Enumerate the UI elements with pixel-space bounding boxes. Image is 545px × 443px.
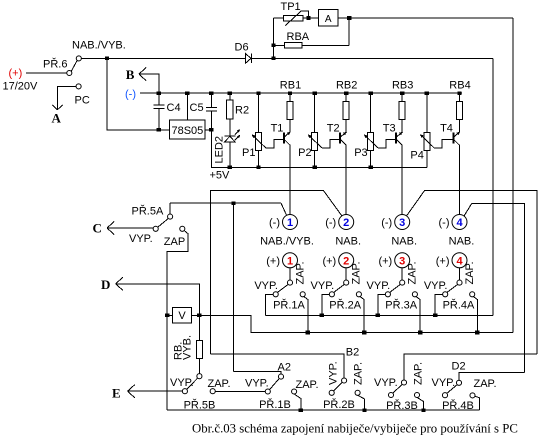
transistor T2 — [339, 133, 341, 144]
svg-text:4: 4 — [456, 255, 463, 267]
svg-text:4: 4 — [456, 217, 463, 229]
switch PR.1A — [289, 268, 291, 280]
switch PR.2A — [345, 268, 347, 280]
wire PR.5A common to node1 bus — [169, 203, 171, 214]
svg-text:NAB./VYB.: NAB./VYB. — [260, 236, 314, 248]
bus node 1 — [170, 202, 281, 204]
svg-text:PŘ.2A: PŘ.2A — [329, 298, 361, 311]
node terminal plus 3 — [395, 253, 410, 268]
transistor T3 — [395, 133, 397, 144]
svg-text:VYP.: VYP. — [254, 280, 278, 292]
svg-text:VYP.: VYP. — [245, 378, 269, 390]
wire TP1 to ammeter — [303, 17, 319, 19]
svg-text:ZAP.: ZAP. — [407, 261, 419, 284]
bus node 4 — [464, 204, 525, 373]
svg-text:ZAP.: ZAP. — [464, 261, 476, 284]
regulator 78S05 — [170, 120, 206, 139]
wire 78S05 top pin — [186, 93, 188, 120]
node terminal minus 4 — [452, 215, 467, 230]
svg-text:VYP.: VYP. — [432, 377, 456, 389]
svg-text:17/20V: 17/20V — [3, 81, 39, 93]
resistor RB4 — [457, 91, 461, 95]
svg-text:B: B — [126, 67, 135, 82]
switch PR.4A — [459, 268, 461, 280]
wire ammeter charge rail — [192, 315, 513, 332]
wire P2 wiper to base — [322, 140, 340, 148]
svg-text:ZAP.: ZAP. — [474, 378, 497, 390]
trimmer TP1 — [284, 15, 304, 20]
svg-text:D6: D6 — [235, 42, 249, 54]
wire main + rail after D6 — [251, 57, 493, 59]
svg-text:TP1: TP1 — [281, 1, 301, 13]
svg-text:(-): (-) — [269, 217, 280, 229]
svg-text:PŘ.5B: PŘ.5B — [184, 398, 216, 411]
svg-text:(-): (-) — [325, 217, 336, 229]
wire minus rail — [140, 92, 462, 94]
svg-text:D2: D2 — [452, 361, 466, 373]
svg-text:VYP.: VYP. — [311, 280, 335, 292]
svg-text:C4: C4 — [167, 102, 181, 114]
wire P3 wiper to base — [378, 140, 396, 148]
wire P4 wiper to base — [434, 140, 453, 148]
wire T1 collector down — [289, 145, 291, 214]
wire PR.2A VYP to direct rail — [322, 294, 330, 315]
svg-text:(+): (+) — [436, 256, 450, 268]
svg-text:PC: PC — [75, 94, 90, 106]
svg-text:T4: T4 — [440, 123, 453, 135]
bus node 2 — [211, 190, 342, 353]
svg-text:ZAP.: ZAP. — [351, 261, 363, 284]
svg-text:VYP.: VYP. — [327, 361, 339, 385]
svg-text:ZAP.: ZAP. — [296, 379, 319, 391]
wire PR.5B ZAP to PR.1B VYP — [215, 390, 265, 392]
wire main + rail — [81, 57, 245, 59]
svg-text:T1: T1 — [271, 123, 284, 135]
svg-text:ZAP: ZAP — [164, 236, 185, 248]
transistor T1 — [283, 133, 285, 144]
svg-text:3: 3 — [399, 217, 405, 229]
trimmer P3 — [369, 91, 373, 95]
svg-text:PŘ.3A: PŘ.3A — [385, 298, 417, 311]
svg-text:VYP.: VYP. — [170, 377, 194, 389]
svg-text:VYP.: VYP. — [367, 280, 391, 292]
wire C to PR.5A VYP — [107, 227, 153, 229]
svg-text:(-): (-) — [125, 89, 136, 101]
svg-text:A: A — [52, 111, 62, 126]
svg-text:P1: P1 — [242, 147, 255, 159]
resistor RB3 — [400, 91, 404, 95]
svg-text:PŘ.2B: PŘ.2B — [323, 398, 355, 411]
svg-text:(-): (-) — [439, 217, 450, 229]
svg-text:RB2: RB2 — [336, 80, 357, 92]
svg-text:PŘ.1A: PŘ.1A — [273, 298, 305, 311]
svg-text:(+): (+) — [322, 256, 336, 268]
svg-text:V: V — [178, 310, 186, 322]
wire PR.4A ZAP to ammeter rail — [473, 296, 478, 332]
bus main + right — [492, 58, 494, 315]
wire discharge rail bottom — [167, 409, 480, 411]
resistor RB2 — [344, 91, 348, 95]
node terminal plus 1 — [283, 253, 298, 268]
svg-text:P3: P3 — [354, 147, 367, 159]
svg-text:(+): (+) — [378, 256, 392, 268]
svg-text:ZAP.: ZAP. — [294, 261, 306, 284]
wire RBA left lead — [274, 44, 285, 46]
bus node 3 — [407, 191, 537, 354]
capacitor C4 — [158, 93, 160, 105]
transistor T4 — [452, 133, 454, 144]
wire E to PR.5B VYP — [128, 390, 183, 392]
wire TP1 branch top — [274, 17, 284, 19]
svg-text:VYP.: VYP. — [129, 233, 153, 245]
wire PR.3A VYP to direct rail — [378, 294, 386, 315]
ammeter A1 box — [319, 10, 339, 27]
svg-text:1: 1 — [287, 255, 293, 267]
resistor RB1 — [288, 91, 292, 95]
svg-text:T2: T2 — [327, 123, 340, 135]
wire P1 wiper to base — [266, 140, 284, 148]
svg-text:NAB./VYB.: NAB./VYB. — [72, 39, 126, 51]
svg-text:ZAP.: ZAP. — [208, 378, 231, 390]
node terminal plus 4 — [452, 253, 467, 268]
trimmer P4 — [425, 91, 429, 95]
svg-text:P4: P4 — [410, 150, 423, 162]
resistor RB discharge — [198, 315, 200, 340]
wire direct charge rail — [266, 314, 493, 316]
node terminal plus 2 — [339, 253, 354, 268]
svg-text:78S05: 78S05 — [171, 125, 203, 137]
svg-text:C: C — [93, 221, 102, 236]
wire RBA right lead — [302, 44, 349, 46]
trimmer P1 — [256, 91, 260, 95]
svg-text:2: 2 — [343, 255, 349, 267]
wire T2 collector down — [345, 145, 347, 214]
LED2 — [229, 119, 231, 136]
svg-text:PŘ.4A: PŘ.4A — [443, 298, 475, 311]
wire PR.2A ZAP to ammeter rail — [360, 296, 365, 332]
svg-text:RB3: RB3 — [392, 80, 413, 92]
svg-text:D: D — [101, 277, 110, 292]
switch PR.3B — [401, 380, 406, 385]
svg-text:VYP.: VYP. — [374, 377, 398, 389]
wire PR.3A ZAP to ammeter rail — [416, 296, 421, 332]
svg-text:(+): (+) — [266, 256, 280, 268]
svg-text:1: 1 — [287, 217, 293, 229]
wire left vertical to 78S05 — [107, 58, 170, 129]
svg-text:2: 2 — [343, 217, 349, 229]
wire PR.4A VYP to direct rail — [435, 294, 443, 315]
svg-text:P2: P2 — [298, 147, 311, 159]
svg-text:(-): (-) — [381, 217, 392, 229]
node terminal minus 3 — [395, 215, 410, 230]
svg-text:VYB.: VYB. — [182, 335, 194, 360]
svg-text:ZAP.: ZAP. — [353, 362, 365, 385]
wire T2 emitter to RB2 — [345, 120, 347, 132]
node terminal minus 2 — [339, 215, 354, 230]
svg-text:NAB.: NAB. — [391, 236, 417, 248]
svg-text:ZAP.: ZAP. — [412, 362, 424, 385]
bus ammeter right — [512, 18, 514, 333]
svg-text:NAB.: NAB. — [335, 236, 361, 248]
svg-text:E: E — [112, 385, 121, 400]
svg-text:NAB.: NAB. — [449, 236, 475, 248]
wire PR.1A ZAP to ammeter rail — [303, 296, 308, 332]
wire T3 emitter to RB3 — [401, 120, 403, 132]
svg-text:T3: T3 — [383, 123, 396, 135]
trimmer P2 — [312, 91, 316, 95]
wire V left lead — [167, 314, 172, 316]
wire D to voltmeter — [116, 284, 200, 316]
svg-text:VYP.: VYP. — [424, 280, 448, 292]
switch PR.5B — [197, 374, 202, 379]
svg-text:R2: R2 — [235, 105, 249, 117]
wire 78S05 output — [205, 129, 211, 131]
svg-text:(+): (+) — [9, 68, 23, 80]
wire ammeter output — [338, 17, 513, 19]
wire from (+) input — [26, 72, 67, 74]
svg-text:PŘ.5A: PŘ.5A — [132, 205, 164, 218]
wire branch vertical — [273, 18, 275, 58]
voltmeter V — [173, 308, 192, 324]
resistor R2 — [229, 93, 231, 100]
contact PC — [76, 84, 81, 89]
svg-text:RB1: RB1 — [280, 80, 301, 92]
svg-text:RB4: RB4 — [449, 80, 470, 92]
svg-text:+5V: +5V — [210, 170, 231, 182]
svg-text:B2: B2 — [346, 347, 359, 359]
svg-text:Obr.č.03 schéma zapojení nabij: Obr.č.03 schéma zapojení nabiječe/vybije… — [192, 421, 518, 435]
svg-text:PŘ.1B: PŘ.1B — [259, 398, 291, 411]
wire T4 emitter to RB4 — [459, 120, 461, 132]
resistor RBA — [285, 42, 303, 48]
wire T1 emitter to RB1 — [289, 120, 291, 132]
wire PR.1A VYP to direct rail — [266, 294, 274, 315]
wire node B to minus rail — [139, 74, 159, 93]
svg-text:RBA: RBA — [287, 31, 310, 43]
svg-text:LED2: LED2 — [214, 136, 226, 164]
node terminal minus 1 — [283, 215, 298, 230]
wire T3 collector down — [401, 145, 403, 214]
svg-text:C5: C5 — [190, 102, 204, 114]
svg-text:A: A — [325, 14, 332, 25]
wire T4 collector down — [459, 145, 461, 214]
wire PR.5A ZAP to discharge common — [167, 230, 188, 410]
switch PR.3A — [401, 268, 403, 280]
svg-text:3: 3 — [399, 255, 405, 267]
svg-text:PŘ.6: PŘ.6 — [43, 58, 67, 71]
